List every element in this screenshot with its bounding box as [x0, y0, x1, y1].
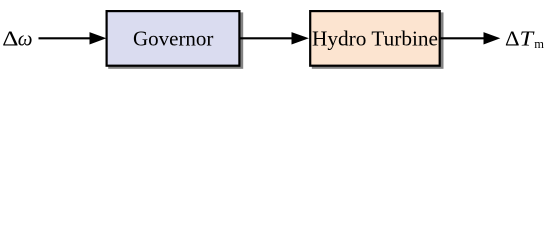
svg-text:Δ: Δ [2, 27, 18, 51]
block Governor shadow [108, 12, 243, 68]
block Hydro Turbine [310, 11, 440, 66]
svg-text:Δ: Δ [505, 27, 520, 51]
svg-text:ω: ω [18, 27, 33, 51]
svg-text:Governor: Governor [133, 27, 213, 51]
svg-text:T: T [520, 27, 535, 51]
svg-text:m: m [534, 37, 544, 51]
node input label Δω [2, 27, 32, 51]
wire output arrow [441, 32, 501, 44]
wire input arrow [39, 32, 107, 44]
block Governor [107, 11, 240, 66]
svg-text:Hydro Turbine: Hydro Turbine [312, 27, 438, 51]
node output label ΔTm [505, 27, 544, 51]
wire Governor to Hydro Turbine [241, 32, 309, 44]
block Hydro Turbine shadow [312, 12, 444, 68]
